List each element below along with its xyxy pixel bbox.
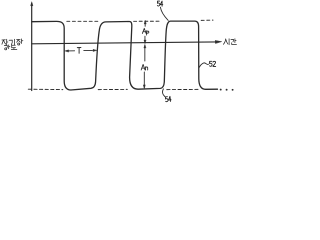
y-axis label line2: 강도 (drawn strokes) [4, 45, 17, 50]
top reference dashed line segment 1 [67, 20, 99, 22]
x-axis [32, 40, 222, 43]
leader line for top 54 [160, 7, 168, 20]
amplitude An arrow (axis to bottom level) [143, 44, 146, 88]
bottom reference dashed line segment 2 [98, 88, 127, 90]
amplitude Ap arrow (top level to axis) [144, 20, 146, 44]
y-axis label line1: 자기장 (drawn strokes) [2, 39, 23, 45]
label 52 [209, 61, 215, 66]
trailing ellipsis dots [220, 89, 234, 91]
label 54 bottom [165, 96, 171, 102]
label An [141, 64, 148, 70]
leader line for bottom 54 [162, 89, 164, 97]
y-axis [31, 2, 33, 91]
period measure T left arrow [65, 50, 75, 52]
x-axis label: 시간 (drawn strokes) [223, 39, 236, 45]
label 54 top [157, 1, 162, 6]
period measure T right arrow [84, 49, 97, 51]
bottom reference dashed line segment 3 [167, 88, 200, 90]
label T [77, 48, 81, 54]
waveform 52 [32, 21, 218, 90]
leader line for 52 [199, 63, 208, 67]
label Ap [142, 28, 149, 35]
top reference dashed line segment 2 [134, 20, 160, 22]
top reference dashed line segment 3 [201, 19, 213, 21]
bottom reference dashed line segment 1 [28, 88, 63, 90]
